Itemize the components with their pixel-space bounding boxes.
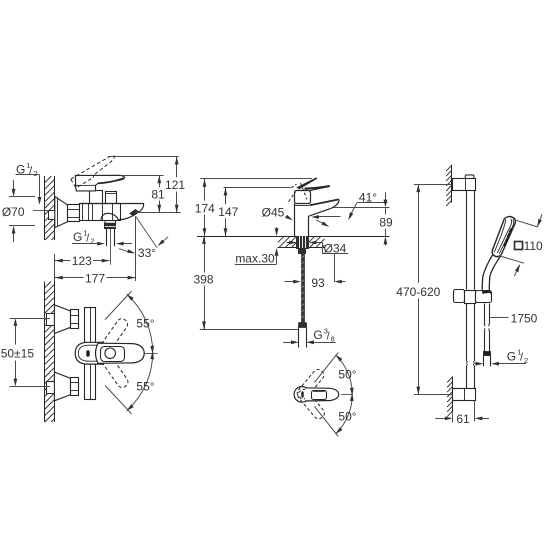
bottom rail bracket	[453, 388, 476, 401]
flow direction arrow in spout	[316, 220, 329, 227]
svg-text:55°: 55°	[136, 317, 154, 331]
wall (top view, bath mixer) with hatching	[45, 282, 55, 423]
hand shower head	[492, 217, 515, 257]
hose nut (dark)	[484, 352, 491, 356]
dim G1/2 right with arrows	[475, 348, 528, 366]
leader 1750 hose length	[491, 312, 538, 326]
leader 33 degrees flow line from aerator	[136, 217, 168, 248]
extension line from Ø34 to 93 dim	[334, 254, 336, 282]
svg-text:50°: 50°	[338, 368, 356, 382]
basin lever ghost rotated down 50 deg (dashed)	[296, 388, 326, 421]
dim 177 horizontal	[55, 271, 135, 285]
33 degree pointer arrow to vertical reference	[119, 249, 135, 254]
upper escutcheon (top view)	[54, 305, 78, 334]
extension tick at wall for dim 61	[452, 414, 454, 423]
svg-text:470-620: 470-620	[396, 285, 440, 299]
G3/8 connection tube	[299, 327, 307, 348]
union nut (bath mixer wall connection)	[68, 205, 80, 222]
arrow pair right side of outlet fitting	[116, 242, 132, 246]
centre line of lever (top view)	[145, 353, 158, 355]
shower hose upper section	[484, 304, 490, 352]
wall supply pipe square (bath mixer)	[49, 211, 56, 220]
valve cap (top view rounded body)	[75, 342, 104, 364]
escutcheon Ø70 (bath mixer side view)	[55, 197, 68, 228]
extension tick at wall surface	[54, 254, 56, 285]
centre line of shower outlet	[110, 229, 112, 265]
svg-text:61: 61	[456, 412, 470, 426]
basin mixer body column	[294, 204, 310, 237]
bath mixer lever handle (solid)	[75, 175, 124, 191]
bath spout	[80, 203, 144, 220]
dim 89 vertical with reference lines	[334, 192, 393, 245]
centre line to wall pipe	[33, 210, 49, 212]
basin mixer handle block	[295, 191, 311, 204]
dim max.30 with underline and arrows	[235, 227, 279, 265]
dim 81 vertical	[122, 176, 165, 213]
svg-text:G: G	[507, 349, 516, 363]
svg-text:1750: 1750	[511, 312, 538, 326]
dim 174 vertical	[195, 179, 312, 237]
svg-text:G: G	[73, 230, 82, 244]
dim Ø70 with arrows and ticks	[2, 180, 35, 242]
shower outlet fitting under bath mixer	[105, 221, 116, 247]
dim 398 vertical	[193, 236, 213, 329]
shank washer and nut below deck	[299, 249, 306, 254]
wall (side view, bath mixer) with hatching	[45, 176, 55, 240]
svg-text:121: 121	[165, 178, 185, 192]
svg-text:123: 123	[72, 254, 92, 268]
aerator (angled outlet) on bath spout	[129, 209, 139, 216]
svg-text:2: 2	[524, 356, 528, 365]
dark index mark on valve cap	[87, 351, 90, 357]
diverter knob (square)	[106, 192, 117, 204]
wall line lower (shower rail) with hatch ticks	[447, 376, 453, 416]
dim square-110 tangent lines and arrows	[499, 214, 543, 276]
label 41 degrees with leader	[348, 191, 387, 221]
spray face dashes on hand shower	[504, 229, 512, 247]
dim Ø45 label with leader	[262, 206, 293, 221]
extension line below bottom bracket	[474, 401, 476, 422]
top rail bracket	[453, 175, 476, 191]
dim 147 vertical	[218, 188, 290, 237]
svg-text:G: G	[313, 328, 322, 342]
dim 150 plus-minus 15 vertical	[0, 318, 50, 386]
svg-text:2: 2	[33, 169, 37, 178]
55 degree swing legs	[105, 291, 132, 414]
cartridge neck under handle	[90, 191, 103, 204]
lever ghost rotated down 55 deg (dashed)	[96, 347, 130, 389]
bath mixer lever raised position (dashed)	[71, 154, 119, 188]
lower escutcheon (top view)	[54, 372, 78, 401]
50 degree dimension arc with arrows	[336, 355, 354, 434]
dim G3/8 label with arrows	[283, 326, 335, 344]
55 degree dimension arc with arrows	[127, 294, 155, 411]
basin mixer lever blade	[296, 177, 329, 190]
svg-text:55°: 55°	[136, 380, 154, 394]
dim 121 vertical	[108, 157, 185, 213]
svg-text:Ø70: Ø70	[2, 205, 25, 219]
label square 110	[515, 239, 544, 253]
wall pipe square upper (top view)	[47, 314, 55, 326]
svg-text:93: 93	[311, 276, 325, 290]
reference line at G3/8 level	[200, 329, 299, 331]
50 degree swing legs	[315, 352, 339, 436]
glide holder on rail	[454, 290, 492, 304]
basin lever body (top view)	[305, 388, 339, 401]
svg-text:89: 89	[379, 216, 393, 230]
reference line at spout outlet level	[135, 212, 181, 214]
dim 470-620 vertical	[396, 184, 452, 394]
svg-text:33°: 33°	[138, 246, 156, 260]
svg-text:398: 398	[193, 273, 213, 287]
svg-text:2: 2	[90, 237, 94, 246]
basin lever ghost rotated up 50 deg (dashed)	[295, 368, 325, 401]
dim 123 horizontal	[55, 254, 110, 268]
shower rail tube	[467, 190, 475, 388]
basin mixer handle ghost (dashed)	[289, 183, 307, 202]
hand shower handle	[482, 254, 501, 292]
dim 93 horizontal	[285, 276, 346, 290]
basin mixer spout	[309, 199, 339, 216]
lever ghost rotated up 55 deg (dashed)	[95, 317, 129, 359]
svg-text:max.30: max.30	[235, 252, 275, 266]
mixer body bar (top view)	[85, 308, 96, 400]
rod end cap	[299, 323, 307, 328]
svg-text:110: 110	[524, 239, 543, 253]
svg-text:Ø45: Ø45	[262, 206, 285, 220]
leader from G1/2 to wall connection	[16, 175, 42, 205]
dim 61 horizontal	[435, 412, 489, 426]
dim Ø34 label with bracket	[322, 242, 348, 256]
svg-text:81: 81	[151, 188, 165, 202]
bath mixer lever (top view)	[96, 343, 145, 363]
wall pipe square lower (top view)	[47, 382, 55, 394]
wall line upper (shower rail) with hatch ticks	[446, 165, 452, 206]
counter deck line	[197, 236, 390, 238]
dim G1/2 lower label with leader arrow	[72, 228, 105, 245]
arrows at shank sides (Ø34)	[287, 241, 323, 245]
svg-text:174: 174	[195, 202, 215, 216]
svg-text:150±15: 150±15	[0, 346, 34, 360]
horizontal arrow at spout underside	[311, 215, 340, 219]
svg-text:177: 177	[85, 271, 105, 285]
extension line from spout tip	[135, 216, 137, 281]
centre line of basin lever (top view)	[342, 394, 353, 396]
threaded mounting rod	[301, 254, 304, 323]
threaded shank through deck	[297, 236, 309, 248]
basin lever (top view) cap	[294, 387, 310, 403]
rail break symbol	[466, 361, 474, 366]
hose connection tube G1/2	[484, 355, 491, 366]
counter deck hatching	[278, 236, 325, 248]
counter deck underside line	[278, 247, 325, 249]
svg-text:50°: 50°	[338, 409, 356, 423]
svg-text:147: 147	[218, 205, 238, 219]
bath mixer body (horizontal cylinder)	[80, 203, 121, 221]
